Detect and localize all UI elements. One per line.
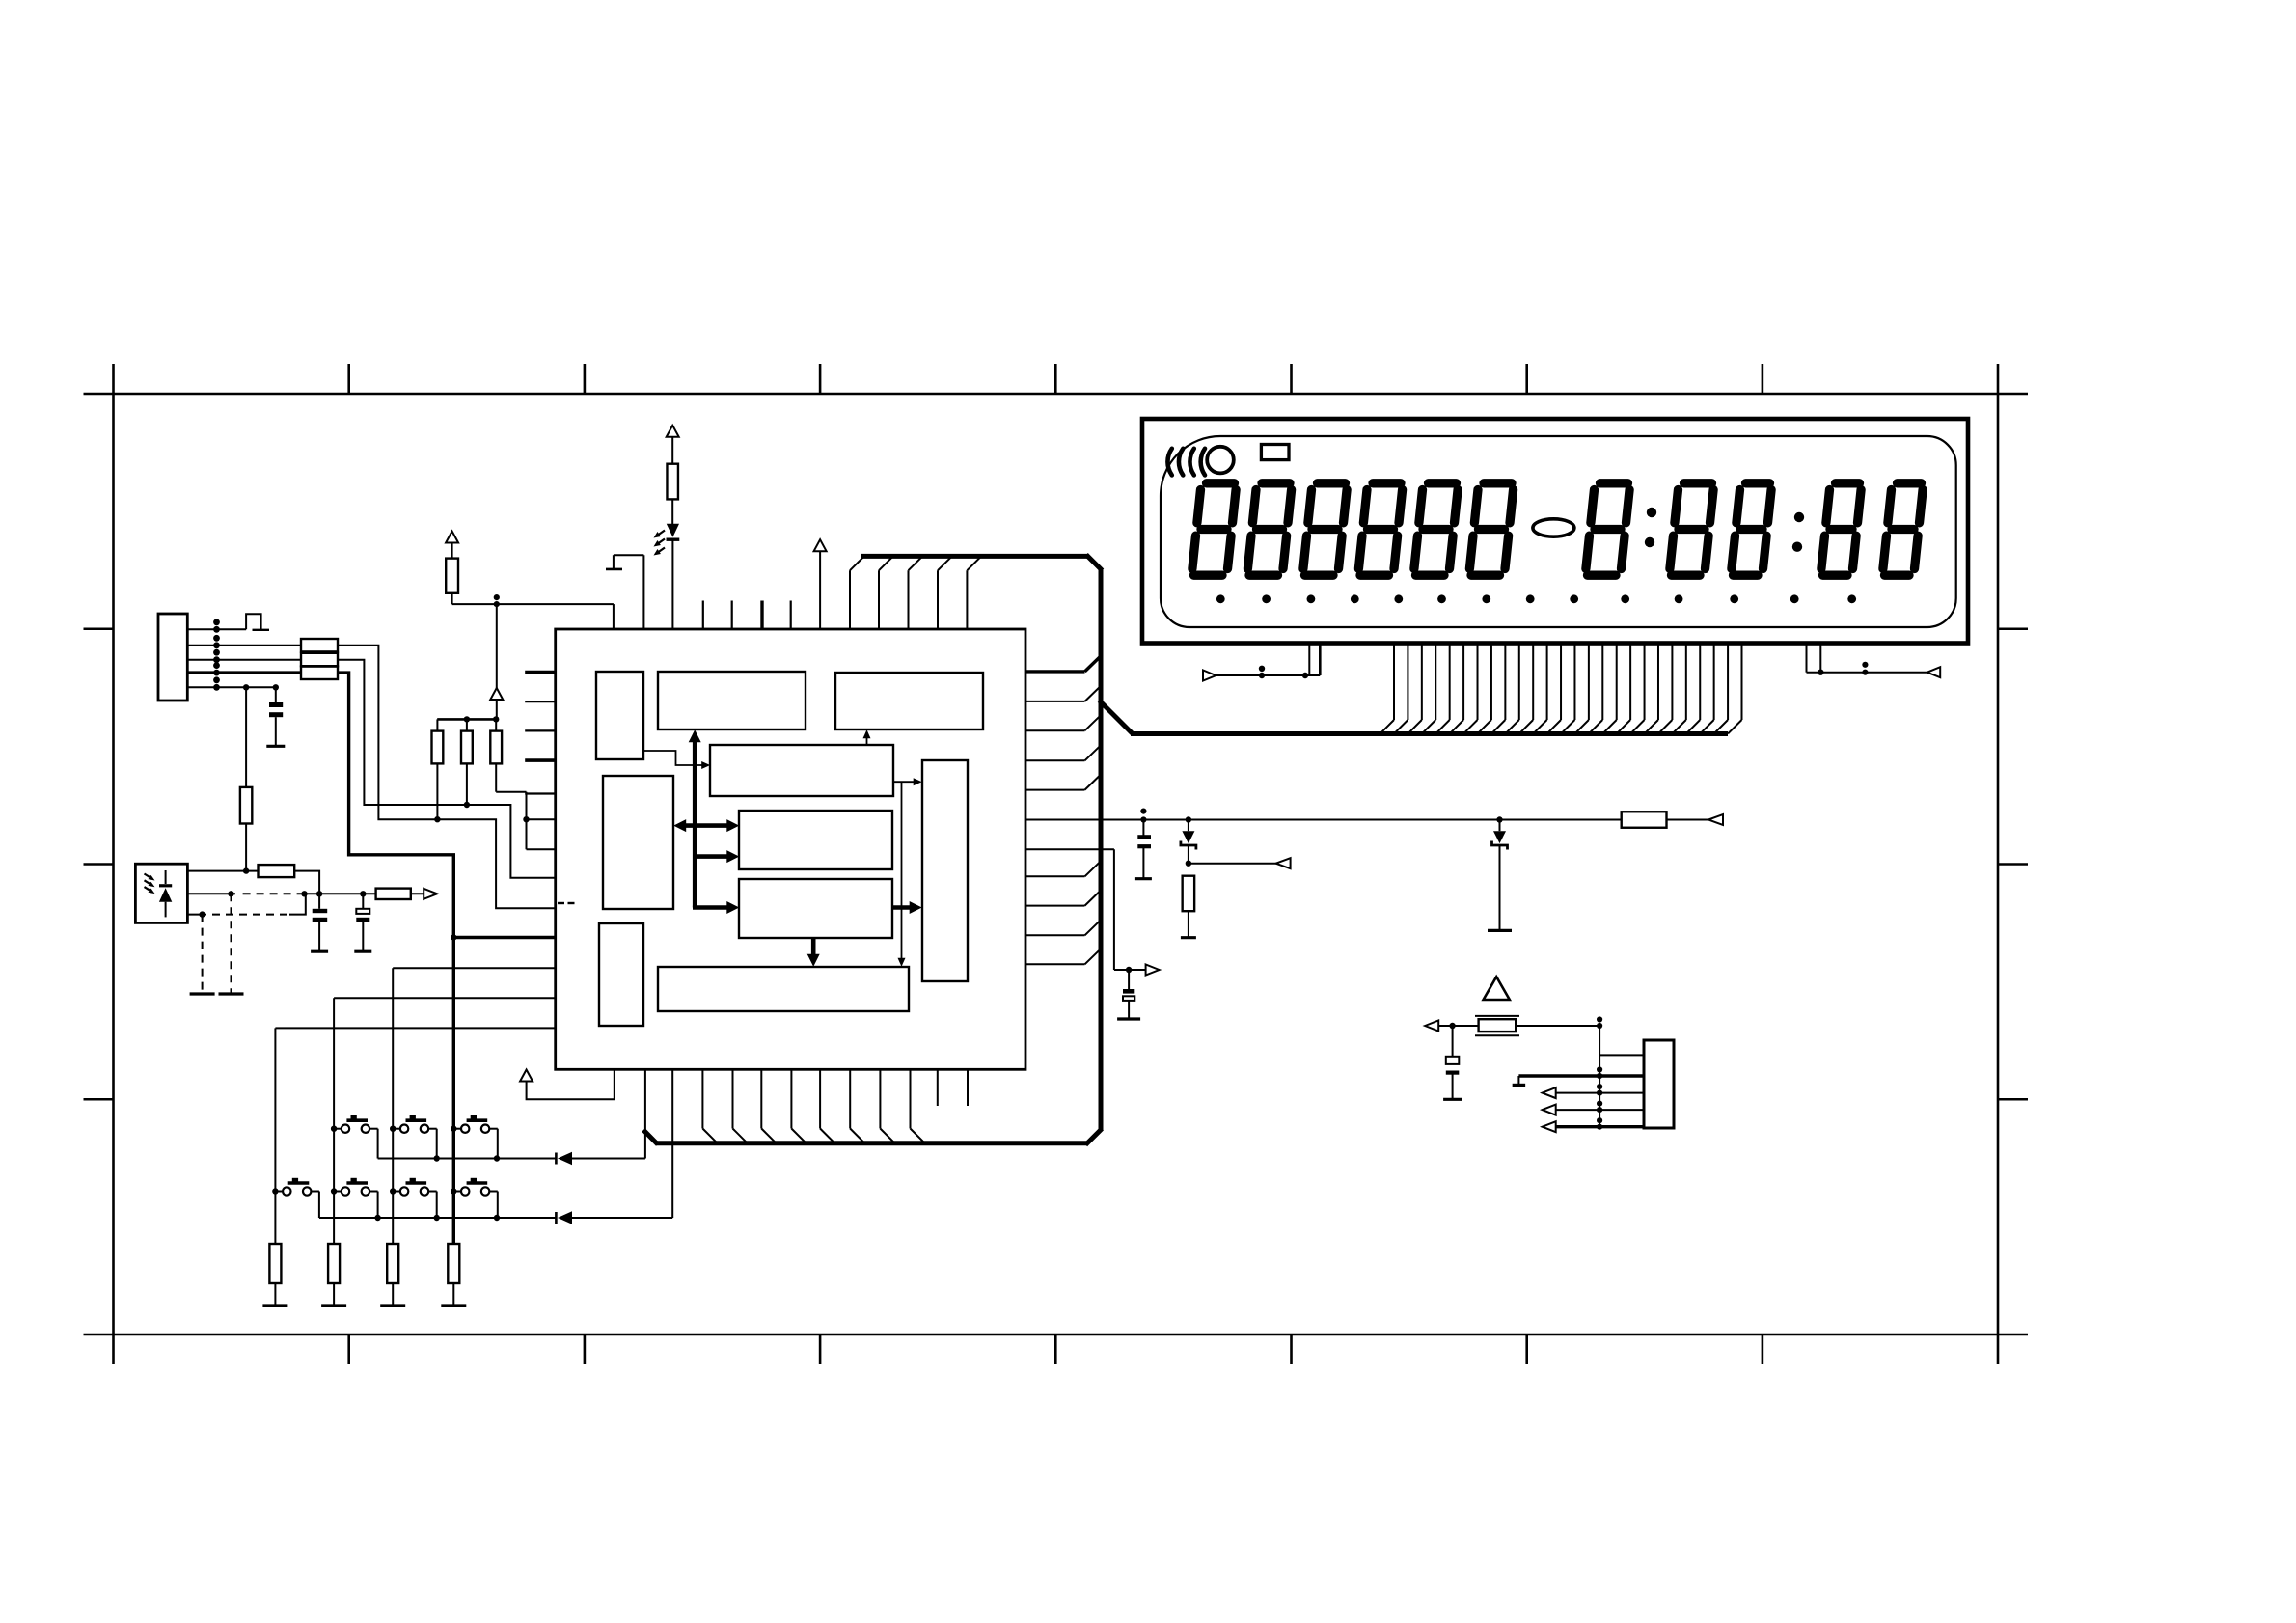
off-page arrow into fuse net [1425,1021,1438,1032]
bus from IC to display - top run [861,554,1088,559]
ferrite bead FB2 [301,653,338,666]
IC1 internal block: display controller [922,760,968,981]
wire S5 to row2 common [377,1192,379,1219]
key matrix row 1 common wire [378,1155,557,1161]
wire R7 to IC1 pins [496,763,556,849]
ground 2 for RM1 [219,992,244,995]
resistor R3 on RM1 output [376,889,438,899]
display digit 4 (8) [1358,483,1402,575]
power symbol inline to pull-up rail [490,604,503,719]
wire from D4 to off-page arrow [1189,858,1291,868]
ground for R9 [380,1304,405,1307]
IC1 internal block: port block A [596,672,643,759]
IC1 thin arrow port block A to decoder [643,751,710,769]
IC1 bottom pins to bus [702,1069,924,1143]
warning triangle mark [1484,977,1510,1000]
ground for C1 [266,745,285,748]
resistor R7 key pull-down [269,1244,281,1306]
capacitor C6 [1137,809,1151,879]
capacitor C3 electrolytic [356,894,369,951]
IC1 internal block: ALU [739,811,892,869]
pull-up rail and resistors R5 R6 R7 [432,716,503,763]
resistor R1 vertical [240,687,252,874]
IC1 arrow accumulator to display controller [892,901,921,914]
remote control receiver RM1 [135,864,187,922]
switch S3 (row1 col4) [451,1115,498,1133]
bus right vertical run [1099,569,1104,1131]
resistor R13 [1183,876,1195,938]
IC1 thin arrow decoder to display controller [894,778,922,785]
display digit 5 (8) [1414,483,1458,575]
IC1 right pins to display bus [1025,656,1101,964]
bus bottom run [657,1141,1087,1145]
microcontroller IC1 body [556,629,1025,1069]
wire CN1 pin1 with pulse symbol [187,614,269,630]
key column feed wire 2 [334,997,556,999]
power symbol above R11 [446,532,458,543]
key return wire row 1 [572,1069,645,1158]
display ribbon pins fan [1380,644,1742,734]
display digit 11 (8) [1883,483,1923,575]
key column feed wire 1 [275,1027,555,1029]
capacitor C8 electrolytic [1446,1026,1460,1099]
ferrite bead FB1 [301,639,338,651]
display digit 10 (8) [1821,483,1861,575]
bus corner top-right [1086,555,1103,571]
page border frame [84,364,2029,1364]
display pin wires lower-right [1807,644,1941,678]
resistor R2 on RM1 supply [188,865,319,894]
CN2 signal wire 3 [1543,1117,1644,1132]
ground for C8 [1443,1098,1462,1101]
diode D1 [556,1152,572,1165]
wire CN1 pin4 to FB3 [187,671,301,674]
display digit 1 (8) [1192,483,1236,575]
wire S3 to row1 common [497,1129,499,1159]
connector CN1 [158,614,187,701]
IC1 internal block: timer block [603,776,673,909]
resistor R11 pull-up on reset [446,543,458,604]
wire FR1 to connector CN2 [1516,1016,1644,1126]
wire CN1 pin2 to FB1 [187,645,301,646]
bus corner bottom-right [1085,1129,1102,1145]
wire S4 to row2 common [318,1192,320,1219]
IC1 arrow accumulator down to I/O control [807,938,820,967]
capacitor C1 on CN1 pin5 [269,687,283,746]
key matrix column lines [275,938,453,1245]
bus bottom-left end chamfer [643,1130,658,1144]
resistor R8 key pull-down [328,1244,340,1306]
key scan output net wire [1025,819,1708,821]
ground for CN2 [1513,1084,1526,1087]
dashed ground lead 2 [231,894,232,994]
LED D3 timer indicator [654,524,680,629]
key column feed wire 4 [451,934,556,940]
IC1 internal block: I/O control [658,967,909,1011]
ground for R8 [321,1304,346,1307]
dashed ground lead 1 [202,915,204,994]
switch S2 (row1 col3) [390,1115,437,1133]
IC1 internal bus arrow to ALU [695,850,739,863]
wire S6 to row2 common [436,1192,438,1219]
ground 1 for RM1 [190,992,215,995]
power sense net wire down [1025,849,1160,975]
timer indicator box on display [1261,445,1289,460]
RM1 ground net wire [188,894,306,918]
remote sensor icon on display [1167,447,1233,476]
IC1 left pin stubs [525,673,556,794]
switch S4 (row2 col1) [272,1178,319,1196]
wire CN1 pin3 to FB2 [187,659,301,661]
power symbol above R12 [667,426,679,447]
ground for D5 [1488,929,1512,932]
power symbol at IC1 top pin [814,539,827,629]
display decimal point row [1216,594,1856,603]
ground for C6 [1135,877,1152,880]
ground for R7 [262,1304,287,1307]
wire CN1 pin5 [187,684,279,690]
connector CN2 [1644,1040,1674,1128]
wire FB2 to IC1 [338,660,556,878]
IC1 thin arrow decoder up to RAM [863,729,871,745]
resistor R10 key pull-down [448,1244,459,1306]
zener diode D4 [1181,816,1196,867]
IC1 internal block: RAM [835,673,983,729]
IC1 top pins to display bus [850,556,981,629]
connector CN1 pin junction dots [213,619,220,690]
ferrite bead FB3 [301,667,338,679]
display digit 9 (8) [1732,483,1771,575]
switch S1 (row1 col2) [331,1115,378,1133]
resistor R9 key pull-down [387,1244,398,1306]
ground for C3 [354,950,371,953]
power net below IC1 [520,1069,615,1099]
FL display module DS1 outer frame [1142,419,1968,644]
key column feed wire 3 [393,967,556,969]
CN2 signal wire 2 [1543,1101,1644,1115]
ground for R10 [441,1304,466,1307]
resistor R14 [1622,811,1667,828]
IC1 NC marks [558,902,575,904]
switch S6 (row2 col3) [390,1178,437,1196]
zener diode D5 [1492,816,1508,930]
IC1 internal data bus vertical with up arrow [689,729,701,907]
wire FB1 to IC1 [338,646,556,909]
diode D2 [556,1211,572,1224]
switch S5 (row2 col2) [331,1178,378,1196]
clock stub symbol at IC1 top [606,555,643,629]
wire FB3 to IC1 (supply) [338,673,453,937]
IC1 thin line decoder down to I/O control [898,782,906,967]
IC1 internal block: accumulator [739,879,892,938]
capacitor C7 electrolytic [1123,970,1134,1019]
IC1 bottom pin stubs [938,1069,968,1106]
key matrix row 2 common wire [319,1215,557,1221]
IC1 internal bus corner arrow to accumulator [693,901,739,914]
display pin wires lower-left [1203,644,1320,681]
wire reset net to IC1 top [452,594,614,629]
wire arrow to fusible resistor [1438,1023,1479,1029]
wire S1 to row1 common [377,1129,379,1159]
CN2 ground wire [1518,1066,1644,1085]
switch S7 (row2 col4) [451,1178,498,1196]
CN2 signal wire 1 [1543,1084,1644,1098]
display digit 7 (8) [1586,483,1629,575]
display digit 3 (8) [1303,483,1347,575]
ground for C7 [1117,1017,1140,1020]
display digit 8 (8) [1670,483,1713,575]
off-page arrow right of R14 [1708,814,1723,825]
IC1 internal block: port block B [599,923,643,1026]
display digit 2 (8) [1247,483,1291,575]
display colon 1 [1645,508,1656,547]
IC1 internal block: instruction decoder [710,745,893,796]
IC1 internal block: ROM [658,672,806,729]
key return wire row 2 [572,1069,672,1218]
capacitor C2 [313,894,328,951]
display digit 6 (8) [1469,483,1513,575]
IC1 internal bus double arrow to timer and ALU [673,819,739,832]
resistor R12 for LED [667,447,678,529]
display ribbon bus line [1131,731,1728,736]
fusible resistor FR1 [1475,1016,1519,1035]
wire S2 to row1 common [436,1129,438,1159]
bus branch diagonal to display ribbon [1100,701,1133,733]
RM1 output net wire [188,891,376,896]
ground for C2 [311,950,328,953]
IC1 top pin stubs [703,601,791,630]
ground for R13 [1181,936,1196,939]
display oval indicator [1533,519,1574,536]
display colon 2 [1792,512,1804,552]
wire S7 to row2 common [497,1192,499,1219]
